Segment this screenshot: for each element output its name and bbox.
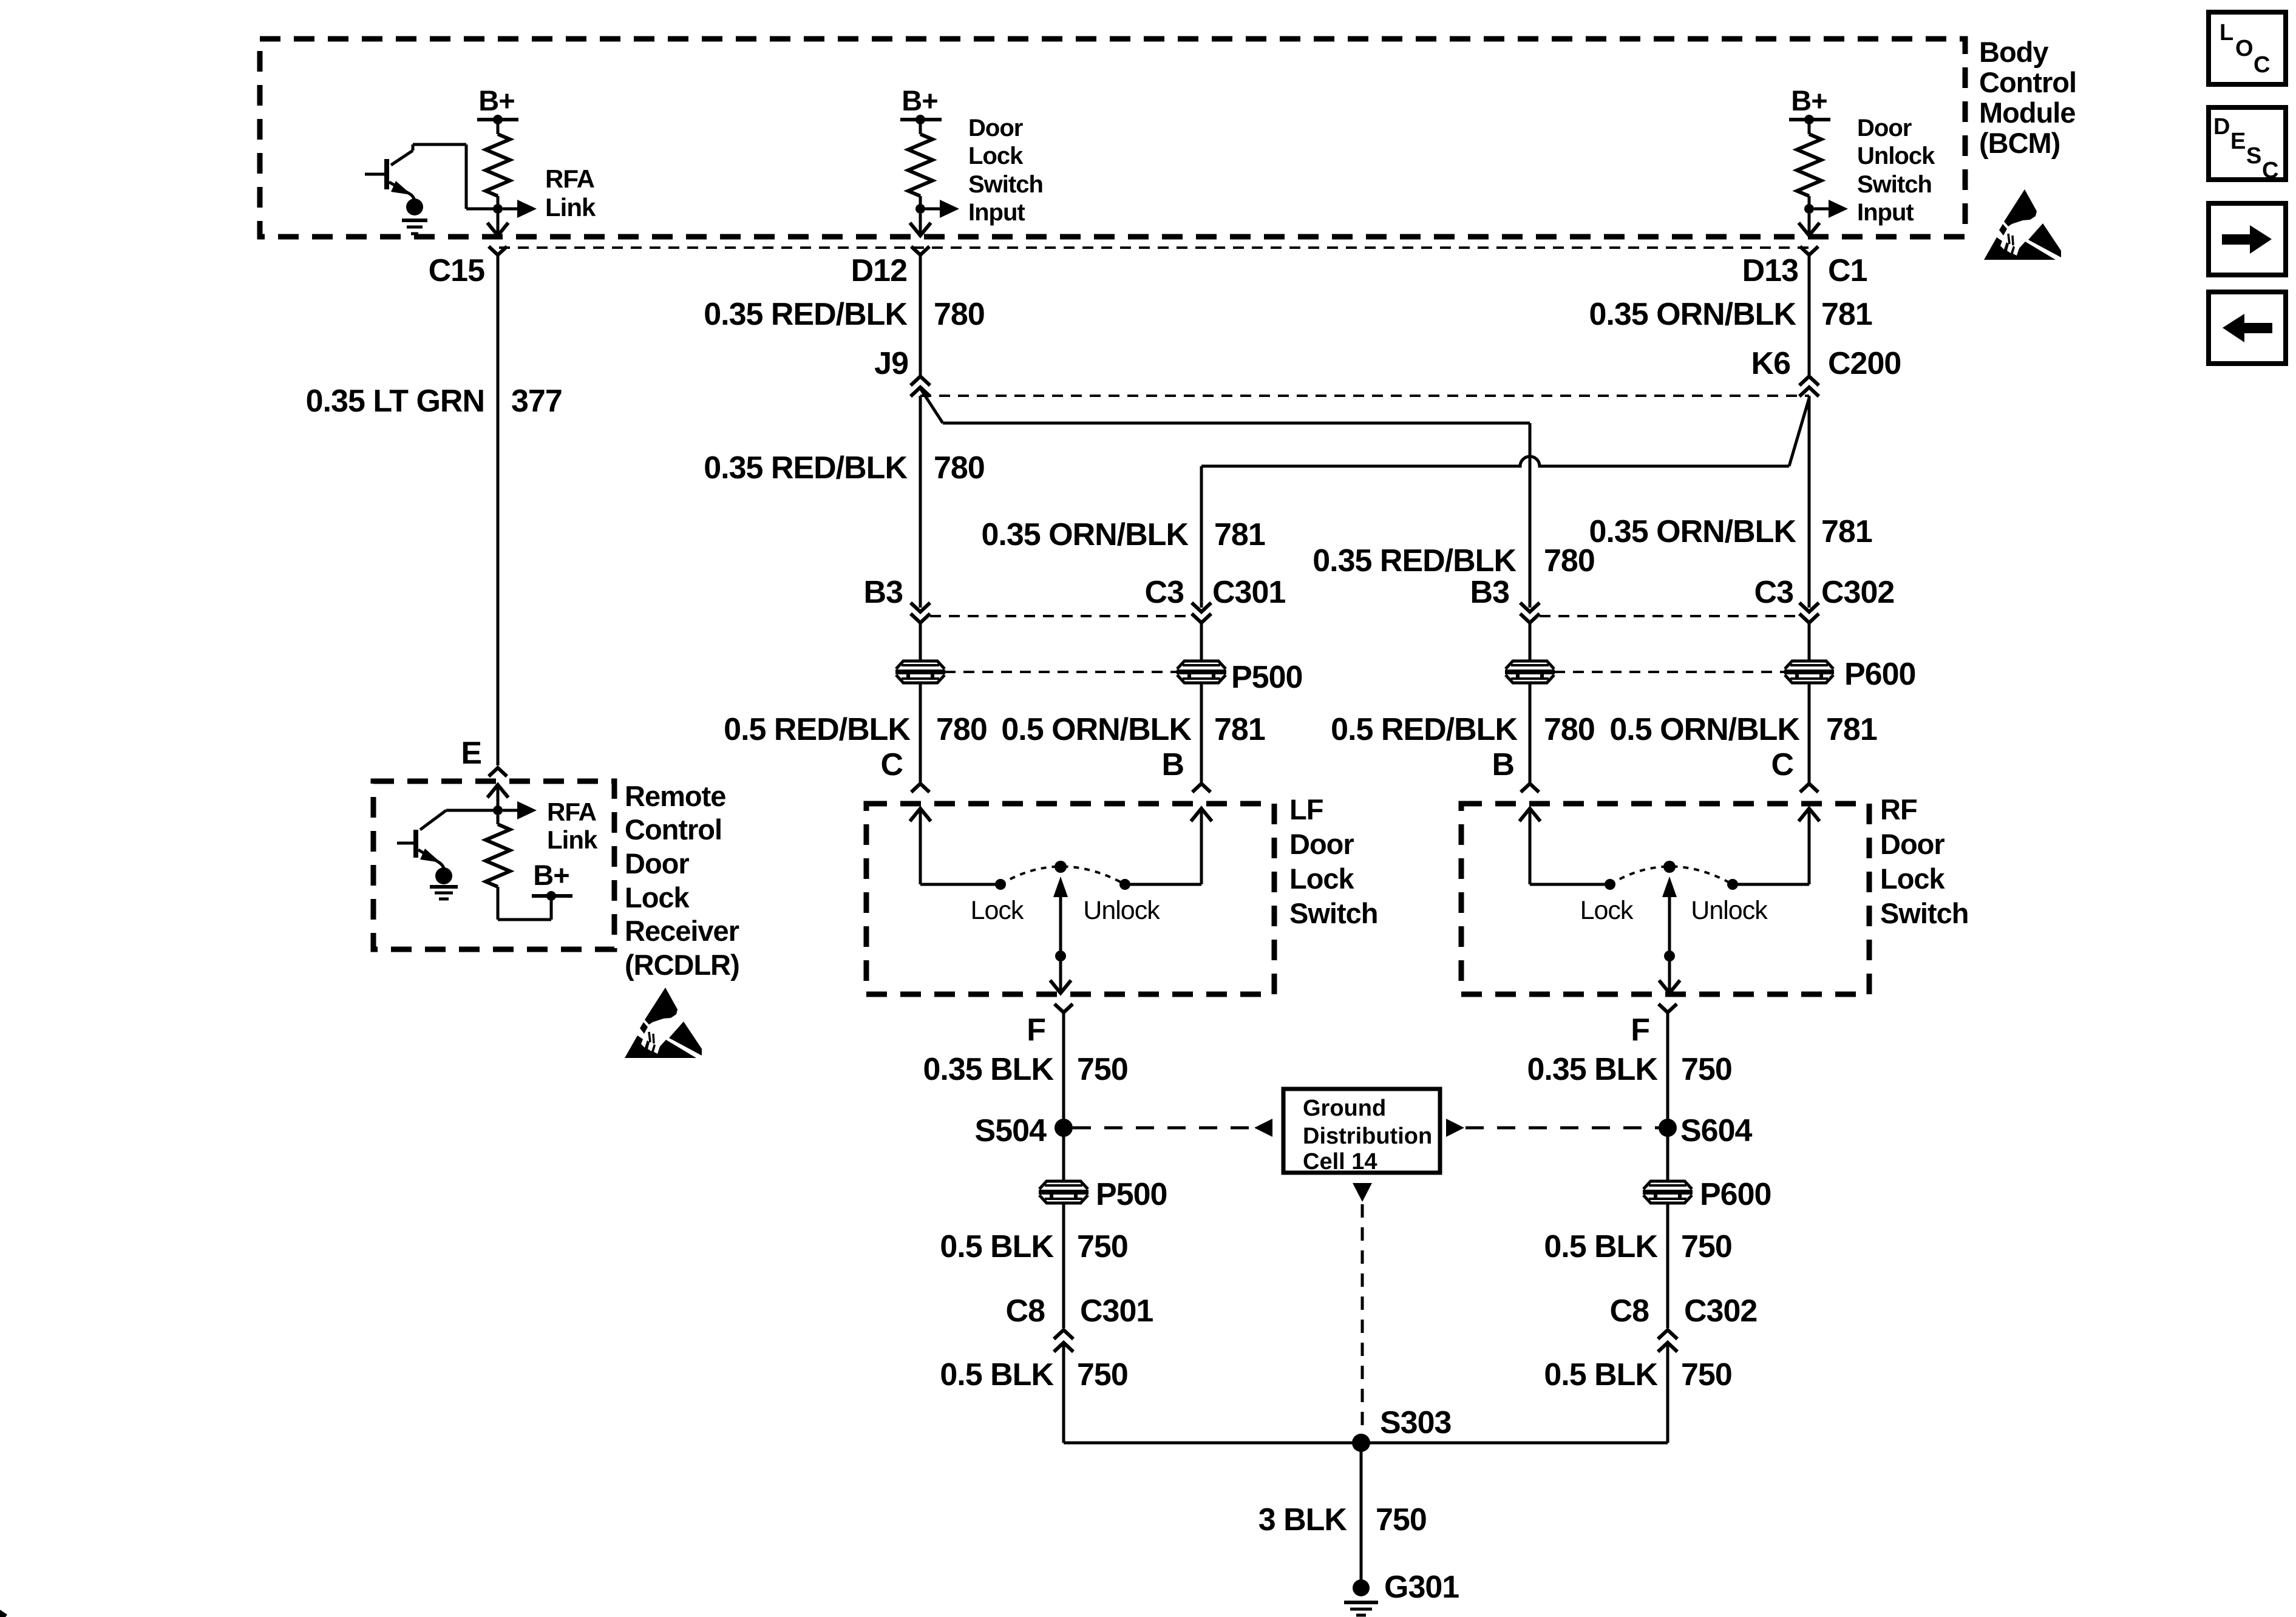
svg-text:Switch: Switch <box>1289 897 1377 929</box>
node: door lock switch input dot <box>915 204 925 214</box>
wire: J9 branch diagonal <box>920 388 943 423</box>
svg-text:C: C <box>880 747 903 782</box>
svg-text:C1: C1 <box>1828 253 1867 288</box>
label: wire 0.5 BLK 750 (RF upper) <box>1544 1229 1731 1264</box>
B+ rail (BCM middle) <box>900 118 942 121</box>
svg-text:C3: C3 <box>1754 575 1794 610</box>
node: B+ dot (RCDLR) <box>546 891 556 901</box>
svg-text:G301: G301 <box>1384 1570 1459 1605</box>
svg-text:0.35 RED/BLK: 0.35 RED/BLK <box>1313 543 1517 578</box>
label Unlock (LF) <box>1083 896 1160 925</box>
connector arrow C15 (module exit) <box>487 223 508 236</box>
label S604 <box>1680 1113 1753 1148</box>
node: LF Unlock contact dot <box>1119 879 1130 890</box>
svg-text:Module: Module <box>1979 97 2075 129</box>
ground G301 <box>1344 1579 1378 1615</box>
wire: RF right pole <box>1733 883 1809 886</box>
grommet line P500 (dashed) <box>945 671 1177 673</box>
node: B+ junction dot (BCM left) <box>493 115 503 124</box>
wire: B3 to P500 <box>919 623 922 661</box>
label S303 <box>1380 1405 1452 1440</box>
connector C200 chevrons at J9 <box>911 376 930 396</box>
svg-text:780: 780 <box>934 297 985 332</box>
svg-text:RFA: RFA <box>545 164 595 193</box>
label Lock (LF) <box>971 896 1024 925</box>
connector arrow D12 (module exit) <box>910 223 931 236</box>
switch actuator arrow (RF) <box>1659 876 1680 993</box>
label: wire 0.5 BLK 750 (LF upper) <box>940 1229 1127 1264</box>
svg-text:C15: C15 <box>429 253 484 288</box>
grommet P500 (left wire) <box>895 661 945 683</box>
svg-text:750: 750 <box>1077 1357 1128 1392</box>
svg-text:Body: Body <box>1979 36 2048 68</box>
connector C302 chevrons at C3 <box>1799 603 1819 623</box>
node: RF Unlock contact dot <box>1727 879 1738 890</box>
label: RFA Link (RCDLR) <box>547 798 598 854</box>
button box right-arrow <box>2209 203 2286 275</box>
grommet P500 (body pass-through) <box>1039 1181 1089 1203</box>
svg-text:Lock: Lock <box>1580 896 1634 925</box>
svg-text:781: 781 <box>1821 297 1872 332</box>
node: B+ dot (BCM middle) <box>915 115 925 124</box>
label D12 <box>851 253 907 288</box>
node: B+ dot (BCM right) <box>1804 115 1814 124</box>
connector C200 chevrons at K6 <box>1799 376 1819 396</box>
ESD sensitivity symbol (RCDLR) <box>625 988 702 1058</box>
svg-text:781: 781 <box>1826 712 1877 747</box>
wire: resistor to B+ (RCDLR) <box>498 896 551 920</box>
svg-text:Control: Control <box>1979 66 2076 98</box>
dashed reference: S504 to Ground Distribution <box>1073 1127 1253 1130</box>
node: LF wiper pivot dot <box>1055 861 1067 873</box>
svg-text:P500: P500 <box>1231 660 1302 695</box>
svg-text:0.35 ORN/BLK: 0.35 ORN/BLK <box>1589 297 1796 332</box>
wire: D12 lead inside BCM <box>919 214 922 233</box>
svg-text:P600: P600 <box>1844 657 1915 692</box>
wire: S504 to P500 <box>1062 1128 1065 1181</box>
svg-text:C200: C200 <box>1828 346 1901 381</box>
wire: C3 to P500 <box>1200 623 1203 661</box>
svg-text:0.35 ORN/BLK: 0.35 ORN/BLK <box>1589 514 1796 549</box>
connector line C1 (thin dashed) <box>499 246 1809 249</box>
grommet line P600 (dashed) <box>1554 671 1785 673</box>
svg-text:Link: Link <box>547 825 598 854</box>
label pin F (LF) <box>1027 1012 1045 1048</box>
svg-text:(RCDLR): (RCDLR) <box>625 949 739 981</box>
wire: C15 lead inside BCM <box>497 214 500 233</box>
label pin B (LF) <box>1161 747 1184 782</box>
connector line C200 (thin dashed) <box>920 395 1809 397</box>
wire: RED/BLK horizontal to RF <box>943 422 1530 425</box>
svg-text:0.5 BLK: 0.5 BLK <box>1544 1229 1658 1264</box>
module box: Body Control Module (BCM), dashed outline <box>260 39 1965 237</box>
wire: junction to collector <box>466 208 498 211</box>
wire: LF left pole <box>920 883 1000 886</box>
node: splice S504 <box>1055 1119 1073 1137</box>
svg-text:LF: LF <box>1289 793 1323 825</box>
arrowhead into Ground Distribution (left) <box>1254 1119 1272 1137</box>
label: wire 0.5 RED/BLK 780 (RF) <box>1331 712 1595 747</box>
module box: LF Door Lock Switch <box>866 804 1274 994</box>
svg-text:C8: C8 <box>1006 1293 1045 1329</box>
ground (BCM transistor emitter) <box>402 198 427 234</box>
printing artifact speck (bottom-left) <box>0 1610 7 1617</box>
label: Door Lock Switch Input <box>968 115 1043 226</box>
svg-text:F: F <box>1631 1012 1649 1048</box>
wire: K6 branch diagonal <box>1789 398 1809 466</box>
wire: P600 to RF switch pin B <box>1529 683 1532 784</box>
svg-text:0.5 ORN/BLK: 0.5 ORN/BLK <box>1001 712 1192 747</box>
svg-text:C302: C302 <box>1821 575 1894 610</box>
wire: RF left pole <box>1530 883 1610 886</box>
connector fork at switch entry x=1979 <box>1192 784 1211 792</box>
arrow: RFA Link output <box>503 200 537 218</box>
label: wire 0.35 LT GRN 377 <box>306 384 562 419</box>
svg-text:Door: Door <box>625 847 689 880</box>
svg-text:Distribution: Distribution <box>1303 1124 1432 1149</box>
svg-text:Lock: Lock <box>1289 863 1355 895</box>
wire: C15 to RCDLR (E) <box>497 255 500 765</box>
node: LF Lock contact dot <box>995 879 1006 890</box>
svg-text:J9: J9 <box>874 346 908 381</box>
svg-text:0.5 BLK: 0.5 BLK <box>940 1229 1054 1264</box>
dashed reference: Ground Distribution to S604 <box>1466 1127 1659 1130</box>
label P500 <box>1231 660 1302 695</box>
svg-text:Door: Door <box>1289 828 1354 860</box>
connector fork F (RF) <box>1659 1004 1677 1012</box>
wire: S604 to P600 <box>1666 1128 1669 1181</box>
svg-text:Switch: Switch <box>1857 171 1932 198</box>
svg-text:0.5 ORN/BLK: 0.5 ORN/BLK <box>1609 712 1800 747</box>
connector C302 chevrons at B3 <box>1520 603 1540 623</box>
svg-text:Unlock: Unlock <box>1857 143 1935 169</box>
node: RFA link junction dot <box>493 204 503 214</box>
wire: P600 to RF switch pin C <box>1808 683 1811 784</box>
label C8 / C302 (lower) <box>1610 1293 1758 1329</box>
label: RFA Link (BCM) <box>545 164 596 222</box>
svg-text:C301: C301 <box>1212 575 1285 610</box>
wire: K6 straight down <box>1808 396 1811 608</box>
switch wiper arc (RF, dashed) <box>1610 867 1733 885</box>
wire: F to splice (RF) <box>1666 1012 1669 1123</box>
transistor Q (BCM, NPN) <box>365 144 466 209</box>
B+ rail (BCM right) <box>1789 118 1830 121</box>
label S504 <box>975 1113 1047 1148</box>
connector fork C15 <box>489 246 507 255</box>
connector fork at switch entry x=2980 <box>1800 784 1818 792</box>
svg-text:0.35 LT GRN: 0.35 LT GRN <box>306 384 484 419</box>
svg-text:F: F <box>1027 1012 1045 1048</box>
svg-text:Input: Input <box>968 199 1025 226</box>
label: Remote Control Door Lock Receiver (RCDLR) <box>625 780 739 981</box>
svg-text:E: E <box>2230 129 2245 154</box>
grommet P600 (body pass-through) <box>1643 1181 1693 1203</box>
svg-text:0.5 RED/BLK: 0.5 RED/BLK <box>724 712 911 747</box>
label pin C (LF) <box>880 747 903 782</box>
svg-text:Door: Door <box>1880 828 1944 860</box>
label: wire 0.5 ORN/BLK 781 (LF) <box>1001 712 1265 747</box>
wire: J9 straight down <box>919 396 922 608</box>
wire: D13 lead inside BCM <box>1808 214 1811 233</box>
ESD sensitivity symbol (BCM) <box>1984 189 2061 260</box>
label pin C (RF) <box>1771 747 1793 782</box>
connector fork at switch entry x=1516 <box>911 784 929 792</box>
svg-text:D12: D12 <box>851 253 907 288</box>
svg-text:377: 377 <box>511 384 562 419</box>
grommet P600 (left wire) <box>1505 661 1555 683</box>
grommet P500 (right wire) <box>1177 661 1226 683</box>
svg-text:C: C <box>2254 52 2270 78</box>
svg-text:0.5 BLK: 0.5 BLK <box>940 1357 1054 1392</box>
connector arrow into LF right pin <box>1191 808 1212 884</box>
wire: S303 to G301 <box>1360 1443 1363 1581</box>
wire: F to splice (LF) <box>1062 1012 1065 1123</box>
svg-text:L: L <box>2220 20 2233 46</box>
label: wire 0.35 ORN/BLK 781 (BCM to C200) <box>1589 297 1872 332</box>
label K6 / C200 <box>1751 346 1901 381</box>
svg-text:750: 750 <box>1077 1052 1128 1087</box>
svg-text:RF: RF <box>1880 793 1917 825</box>
resistor (BCM middle pull-up) <box>908 120 932 209</box>
node: RF Lock contact dot <box>1605 879 1615 890</box>
label C15 <box>429 253 484 288</box>
label: wire 0.35 ORN/BLK 781 (LF branch) <box>981 517 1265 552</box>
label: wire 0.35 BLK 750 (RF) <box>1527 1052 1731 1087</box>
label P500 (lower) <box>1096 1177 1167 1212</box>
label Unlock (RF) <box>1691 896 1768 925</box>
label: RF Door Lock Switch <box>1880 793 1968 929</box>
label: wire 0.5 BLK 750 (LF lower) <box>940 1357 1127 1392</box>
svg-text:C3: C3 <box>1145 575 1184 610</box>
svg-text:S504: S504 <box>975 1113 1047 1148</box>
label: Door Unlock Switch Input <box>1857 115 1935 226</box>
wire: D13 to C200 <box>1808 255 1811 375</box>
label: wire 3 BLK 750 <box>1258 1502 1427 1537</box>
node: door unlock switch input dot <box>1804 204 1814 214</box>
svg-text:750: 750 <box>1376 1502 1427 1537</box>
label: wire 0.5 ORN/BLK 781 (RF) <box>1609 712 1877 747</box>
svg-text:0.35 RED/BLK: 0.35 RED/BLK <box>704 297 908 332</box>
label pin F (RF) <box>1631 1012 1649 1048</box>
svg-text:781: 781 <box>1214 712 1265 747</box>
label B3 (C302) <box>1470 575 1510 610</box>
label: wire 0.5 BLK 750 (RF lower) <box>1544 1357 1731 1392</box>
node: RF wiper pivot dot <box>1663 861 1676 873</box>
svg-text:B: B <box>1161 747 1184 782</box>
svg-text:780: 780 <box>934 450 985 486</box>
svg-text:B3: B3 <box>1470 575 1510 610</box>
label: wire 0.5 RED/BLK 780 (LF) <box>724 712 987 747</box>
label: wire 0.35 RED/BLK 780 (LF branch) <box>704 450 985 486</box>
arrow: Door Lock Switch Input <box>925 200 959 218</box>
svg-text:D: D <box>2213 114 2229 140</box>
connector arrow into LF left pin <box>910 808 931 884</box>
svg-text:0.35 BLK: 0.35 BLK <box>923 1052 1054 1087</box>
connector arrow into RF left pin <box>1520 808 1540 884</box>
svg-text:E: E <box>461 736 481 771</box>
label: wire 0.35 RED/BLK 780 (RF branch) <box>1313 543 1595 578</box>
svg-text:0.5 RED/BLK: 0.5 RED/BLK <box>1331 712 1518 747</box>
B+ rail (RCDLR) <box>532 894 572 898</box>
svg-text:750: 750 <box>1077 1229 1128 1264</box>
svg-text:Remote: Remote <box>625 780 725 812</box>
label C3 / C301 <box>1145 575 1286 610</box>
label J9 <box>874 346 908 381</box>
svg-text:3 BLK: 3 BLK <box>1258 1502 1348 1537</box>
svg-text:P600: P600 <box>1700 1177 1771 1212</box>
label C8 / C301 (lower) <box>1006 1293 1153 1329</box>
svg-text:Lock: Lock <box>971 896 1024 925</box>
wire: P600 to C302(C8) <box>1666 1203 1669 1328</box>
label B+ (BCM left) <box>478 84 514 117</box>
node: RCDLR junction dot <box>493 805 503 815</box>
connector fork F (LF) <box>1055 1004 1073 1012</box>
label G301 <box>1384 1570 1459 1605</box>
svg-text:C: C <box>2262 158 2278 183</box>
connector arrow E (into RCDLR) <box>487 785 508 807</box>
wire: RED/BLK down at x2520 <box>1529 423 1532 608</box>
button box LOC <box>2209 12 2286 84</box>
label: Body Control Module (BCM) <box>1979 36 2076 159</box>
svg-text:Control: Control <box>625 813 722 846</box>
svg-text:750: 750 <box>1681 1052 1732 1087</box>
svg-text:B: B <box>1492 747 1514 782</box>
button box DESC <box>2209 107 2286 183</box>
connector fork D13 <box>1800 246 1818 255</box>
svg-text:Ground: Ground <box>1303 1096 1386 1121</box>
svg-text:750: 750 <box>1681 1357 1732 1392</box>
svg-text:Lock: Lock <box>968 143 1024 169</box>
resistor (BCM right pull-up) <box>1797 120 1821 209</box>
svg-text:Lock: Lock <box>625 881 690 914</box>
label: wire 0.35 BLK 750 (LF) <box>923 1052 1127 1087</box>
connector fork at switch entry x=2520 <box>1521 784 1539 792</box>
label P600 (lower) <box>1700 1177 1771 1212</box>
svg-text:B+: B+ <box>1791 84 1827 117</box>
svg-text:B+: B+ <box>533 859 569 891</box>
svg-text:Cell 14: Cell 14 <box>1303 1149 1377 1175</box>
wire: P500 to LF switch pin C <box>919 683 922 784</box>
label B3 (C301) <box>864 575 903 610</box>
label pin E <box>461 736 481 771</box>
connector arrow into RF right pin <box>1799 808 1819 884</box>
connector fork D12 <box>911 246 929 255</box>
svg-text:Input: Input <box>1857 199 1914 226</box>
node: splice S604 <box>1659 1119 1677 1137</box>
module box: Remote Control Door Lock Receiver (RCDLR) <box>373 781 614 949</box>
svg-text:Lock: Lock <box>1880 863 1946 895</box>
wire: ORN/BLK down at x1979 <box>1200 466 1203 608</box>
arrowhead out of Ground Distribution (right) <box>1446 1119 1464 1137</box>
wire: LF right pole <box>1125 883 1201 886</box>
arrow: Door Unlock Switch Input <box>1814 200 1848 218</box>
wire: C8 to S303 (left) <box>1062 1343 1065 1443</box>
label B+ (BCM right) <box>1791 84 1827 117</box>
svg-text:P500: P500 <box>1096 1177 1167 1212</box>
connector arrow D13 (module exit) <box>1799 223 1819 236</box>
svg-text:0.5 BLK: 0.5 BLK <box>1544 1357 1658 1392</box>
label B+ (RCDLR) <box>533 859 569 891</box>
svg-text:C302: C302 <box>1684 1293 1757 1329</box>
svg-text:Unlock: Unlock <box>1083 896 1160 925</box>
svg-text:RFA: RFA <box>547 798 597 826</box>
svg-text:S: S <box>2246 143 2261 169</box>
label Lock (RF) <box>1580 896 1634 925</box>
connector line C301 (thin dashed) <box>930 615 1192 617</box>
reference box: Ground Distribution Cell 14 <box>1283 1089 1440 1175</box>
svg-text:O: O <box>2235 36 2253 61</box>
label pin B (RF) <box>1492 747 1514 782</box>
arrow: RFA Link (RCDLR) <box>503 801 537 819</box>
svg-text:780: 780 <box>936 712 987 747</box>
svg-text:S303: S303 <box>1380 1405 1452 1440</box>
arrowhead down from Ground Distribution <box>1353 1183 1372 1202</box>
switch actuator arrow (LF) <box>1050 876 1071 993</box>
svg-text:Door: Door <box>1857 115 1912 141</box>
svg-text:Receiver: Receiver <box>625 915 739 947</box>
wire: D12 to C200 <box>919 255 922 375</box>
B+ rail (BCM left) <box>477 118 518 121</box>
svg-text:781: 781 <box>1214 517 1265 552</box>
connector C302 chevrons at C8 <box>1658 1330 1677 1352</box>
svg-text:C: C <box>1771 747 1793 782</box>
label P600 <box>1844 657 1915 692</box>
svg-text:Switch: Switch <box>1880 897 1968 929</box>
node: splice S303 <box>1352 1434 1370 1452</box>
svg-text:750: 750 <box>1681 1229 1732 1264</box>
svg-text:Unlock: Unlock <box>1691 896 1768 925</box>
svg-text:0.35 RED/BLK: 0.35 RED/BLK <box>704 450 908 486</box>
svg-text:(BCM): (BCM) <box>1979 127 2060 159</box>
wire: B3 to P600 <box>1529 623 1532 661</box>
wire: P500 to LF switch pin B <box>1200 683 1203 784</box>
svg-text:D13: D13 <box>1742 253 1798 288</box>
label C3 / C302 <box>1754 575 1895 610</box>
wire: C3 to P600 <box>1808 623 1811 661</box>
svg-text:B+: B+ <box>902 84 937 117</box>
svg-text:C301: C301 <box>1080 1293 1153 1329</box>
svg-text:Switch: Switch <box>968 171 1043 198</box>
wire: ORN/BLK horizontal to LF (with hop over RED/BLK) <box>1201 456 1789 466</box>
dashed reference: Ground Distribution to S303 <box>1361 1204 1364 1432</box>
resistor (BCM left pull-up) <box>486 120 510 209</box>
svg-text:780: 780 <box>1544 712 1595 747</box>
label: wire 0.35 ORN/BLK 781 (RF straight) <box>1589 514 1872 549</box>
switch wiper arc (LF, dashed) <box>1000 867 1125 885</box>
connector C301 chevrons at C8 <box>1054 1330 1073 1352</box>
svg-text:Link: Link <box>545 193 596 222</box>
button box left-arrow <box>2209 292 2286 364</box>
grommet P600 (right wire) <box>1784 661 1834 683</box>
wire: C8 to S303 (right) <box>1666 1343 1669 1443</box>
svg-text:K6: K6 <box>1751 346 1791 381</box>
module box: RF Door Lock Switch <box>1461 804 1869 994</box>
svg-text:S604: S604 <box>1680 1113 1753 1148</box>
svg-text:781: 781 <box>1821 514 1872 549</box>
svg-text:0.35 ORN/BLK: 0.35 ORN/BLK <box>981 517 1189 552</box>
label D13 / C1 <box>1742 253 1867 288</box>
svg-text:C8: C8 <box>1610 1293 1649 1329</box>
wire: S303 horizontal <box>1064 1442 1668 1445</box>
label: wire 0.35 RED/BLK 780 (BCM to C200) <box>704 297 985 332</box>
connector C301 chevrons at B3 <box>911 603 930 623</box>
connector line C302 (thin dashed) <box>1540 615 1799 617</box>
label B+ (BCM middle) <box>902 84 937 117</box>
ground (RCDLR transistor emitter) <box>430 867 458 899</box>
transistor Q (RCDLR, NPN) <box>397 810 498 869</box>
svg-text:0.35 BLK: 0.35 BLK <box>1527 1052 1658 1087</box>
svg-text:780: 780 <box>1544 543 1595 578</box>
